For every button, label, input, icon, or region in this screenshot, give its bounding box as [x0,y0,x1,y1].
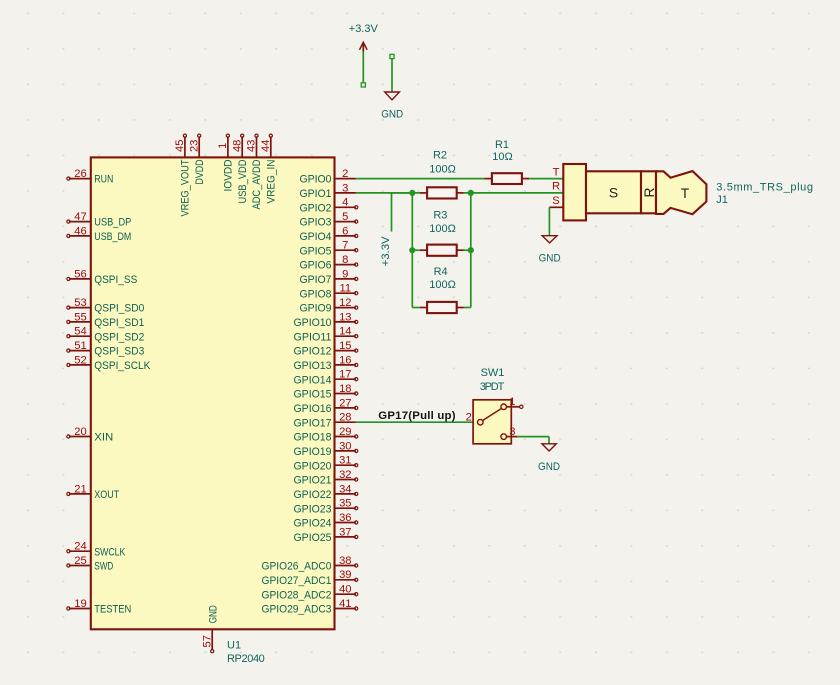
svg-text:GPIO28_ADC2: GPIO28_ADC2 [262,589,332,601]
J1 reference designator [716,194,728,206]
ground GND (top) [390,54,394,91]
pin 23 DVDD (top) [188,134,206,184]
svg-text:RP2040: RP2040 [227,653,265,665]
pin 39 GPIO27_ADC1 (right) [262,569,358,587]
pin 57 GND (bottom) [201,605,219,653]
svg-text:1: 1 [217,143,229,149]
svg-text:7: 7 [342,240,348,252]
svg-text:GND: GND [381,109,403,121]
svg-text:39: 39 [339,569,351,581]
svg-text:40: 40 [339,584,351,596]
pin T label of J1 [553,166,560,178]
svg-text:GPIO11: GPIO11 [294,331,332,343]
svg-text:5: 5 [342,211,348,223]
wire R3 left lead [412,249,420,251]
svg-text:57: 57 [201,635,213,647]
svg-text:16: 16 [339,354,351,366]
svg-text:USB_DP: USB_DP [94,217,131,229]
svg-text:29: 29 [339,426,351,438]
svg-text:S: S [609,185,618,200]
pin 3 GPIO1 (right) [300,182,356,200]
svg-text:GPIO25: GPIO25 [294,532,332,544]
pin 45 VREG_VOUT (top) [174,134,192,216]
pin 51 QSPI_SD3 (left) [67,340,145,358]
svg-text:55: 55 [74,311,86,323]
svg-text:R: R [642,187,657,197]
svg-text:GPIO1: GPIO1 [300,188,332,200]
svg-text:100Ω: 100Ω [429,223,456,235]
svg-text:GPIO6: GPIO6 [300,260,332,272]
svg-text:QSPI_SD0: QSPI_SD0 [94,303,144,315]
power +3.3V (rotated label) [380,236,392,267]
svg-text:28: 28 [339,412,351,424]
svg-text:GND: GND [538,461,560,473]
pin 12 GPIO9 (right) [300,297,358,315]
pin 32 GPIO21 (right) [294,469,358,487]
pin 20 XIN (left) [67,426,114,444]
svg-text:VREG_IN: VREG_IN [266,160,278,204]
svg-text:GPIO16: GPIO16 [294,403,332,415]
wire R1 to J1 tip [529,178,563,180]
svg-text:21: 21 [74,483,86,495]
SW1 throw contact pin 1 [501,396,523,410]
wire right chain vertical [470,193,472,308]
svg-text:SWD: SWD [94,561,113,573]
pin 11 GPIO8 (right) [300,283,358,301]
svg-text:J1: J1 [716,194,728,206]
svg-text:24: 24 [74,541,86,553]
R2 value 100R [429,164,456,176]
pin 5 GPIO3 (right) [300,211,358,229]
svg-text:34: 34 [339,483,351,495]
svg-text:GPIO7: GPIO7 [300,274,332,286]
svg-text:32: 32 [339,469,351,481]
svg-text:48: 48 [231,140,243,152]
pin 15 GPIO12 (right) [294,340,358,358]
pin 18 GPIO15 (right) [294,383,358,401]
svg-text:44: 44 [260,140,272,152]
svg-text:GPIO10: GPIO10 [294,317,332,329]
svg-text:XIN: XIN [94,432,113,444]
wire left chain vertical [411,193,413,308]
svg-text:R1: R1 [495,139,509,151]
svg-text:XOUT: XOUT [94,489,119,501]
svg-text:GPIO13: GPIO13 [294,360,332,372]
R4 reference label [434,266,448,278]
svg-text:46: 46 [74,225,86,237]
pin 26 RUN (left) [67,168,114,186]
pin 56 QSPI_SS (left) [67,268,138,286]
svg-text:8: 8 [342,254,348,266]
svg-text:36: 36 [339,512,351,524]
svg-text:3PDT: 3PDT [480,381,505,393]
connector J1 ring R section [641,171,657,213]
svg-text:53: 53 [74,297,86,309]
wire R4 right lead [464,307,471,309]
svg-text:27: 27 [339,397,351,409]
svg-text:2: 2 [342,168,348,180]
pin 44 VREG_IN (top) [260,134,278,203]
U1 reference designator [227,640,241,652]
svg-text:GPIO2: GPIO2 [300,202,332,214]
pin 28 GPIO17 (right) [294,412,356,430]
pin 37 GPIO25 (right) [294,526,358,544]
wire R3 right lead [464,249,471,251]
svg-text:35: 35 [339,498,351,510]
pin 21 XOUT (left) [67,483,120,501]
svg-text:GPIO19: GPIO19 [294,446,332,458]
resistor R3 [420,245,464,256]
connector J1 tip polygon [656,171,706,214]
svg-text:11: 11 [339,283,351,295]
svg-text:S: S [552,195,559,207]
svg-text:DVDD: DVDD [194,160,206,185]
pin R label of J1 [552,181,560,193]
wire GPIO1 to junction A [356,192,420,194]
U1 value RP2040 [227,653,265,665]
svg-text:3: 3 [509,426,515,438]
svg-text:10Ω: 10Ω [492,151,512,163]
pin 31 GPIO20 (right) [294,455,358,473]
svg-text:SWCLK: SWCLK [94,546,125,558]
svg-text:31: 31 [339,455,351,467]
svg-text:GPIO8: GPIO8 [300,288,332,300]
svg-text:37: 37 [339,526,351,538]
svg-text:19: 19 [74,598,86,610]
R3 reference label [433,210,447,222]
pin 16 GPIO13 (right) [294,354,358,372]
ground symbol near SW1 [538,444,560,473]
svg-text:51: 51 [74,340,86,352]
pin 17 GPIO14 (right) [294,369,358,387]
svg-text:GPIO14: GPIO14 [294,374,332,386]
SW1 reference designator [481,367,505,379]
svg-text:3.5mm_TRS_plug: 3.5mm_TRS_plug [716,181,813,193]
R3 value 100R [429,223,456,235]
svg-text:41: 41 [339,598,351,610]
pin 54 QSPI_SD2 (left) [67,326,145,344]
svg-text:IOVDD: IOVDD [223,160,235,192]
pin 1 IOVDD (top) [217,134,235,191]
svg-text:GPIO12: GPIO12 [294,346,332,358]
SW1 throw contact pin 3 [501,426,517,440]
svg-text:GPIO24: GPIO24 [294,518,332,530]
svg-text:T: T [681,186,690,201]
pin 55 QSPI_SD1 (left) [67,311,145,329]
power +3.3V (top) [349,23,379,52]
pin 46 USB_DM (left) [67,225,132,243]
svg-text:9: 9 [342,268,348,280]
resistor R2 [420,187,464,198]
svg-text:45: 45 [174,140,186,152]
svg-text:52: 52 [74,354,86,366]
svg-text:+3.3V: +3.3V [380,236,392,267]
connector J1 body S section [586,171,641,213]
pin 9 GPIO7 (right) [300,268,358,286]
svg-text:GPIO3: GPIO3 [300,217,332,229]
junction A (GPIO1/+3.3V/R2 left) [409,190,415,196]
svg-text:GPIO18: GPIO18 [294,432,332,444]
svg-text:+3.3V: +3.3V [349,23,379,35]
svg-text:USB_DM: USB_DM [94,231,131,243]
junction C (R3 left) [409,247,415,253]
pin 6 GPIO4 (right) [300,225,358,243]
svg-text:R: R [552,181,560,193]
R1 reference label [495,139,509,151]
svg-text:14: 14 [339,326,351,338]
svg-text:VREG_VOUT: VREG_VOUT [180,159,192,216]
wire SW1 pin 3 to ground [517,437,549,444]
ground symbol near J1 [539,236,561,265]
pin 48 USB_VDD (top) [231,134,249,203]
pin 43 ADC_AVDD (top) [246,134,264,209]
svg-text:GPIO9: GPIO9 [300,303,332,315]
pin 24 SWCLK (left) [67,541,126,559]
svg-text:GP17(Pull up): GP17(Pull up) [378,410,455,422]
svg-text:GND: GND [207,605,219,623]
svg-text:QSPI_SD3: QSPI_SD3 [94,346,144,358]
svg-text:GPIO4: GPIO4 [300,231,332,243]
svg-text:43: 43 [246,140,258,152]
svg-text:6: 6 [342,225,348,237]
svg-text:20: 20 [74,426,86,438]
pin 4 GPIO2 (right) [300,197,358,215]
svg-text:15: 15 [339,340,351,352]
pin 2 GPIO0 (right) [300,168,356,186]
resistor R4 [420,302,464,313]
pin 25 SWD (left) [67,555,114,573]
svg-text:TESTEN: TESTEN [94,604,131,616]
svg-text:17: 17 [339,369,351,381]
pin 13 GPIO10 (right) [294,311,358,329]
R2 reference label [433,150,447,162]
pin 41 GPIO29_ADC3 (right) [262,598,358,616]
svg-text:25: 25 [74,555,86,567]
pin 52 QSPI_SCLK (left) [67,354,151,372]
svg-text:23: 23 [188,140,200,152]
svg-text:QSPI_SD1: QSPI_SD1 [94,317,144,329]
pin S label of J1 [549,195,563,207]
svg-text:56: 56 [74,268,86,280]
svg-text:GPIO21: GPIO21 [294,475,332,487]
pin 14 GPIO11 (right) [294,326,358,344]
svg-text:GPIO20: GPIO20 [294,460,332,472]
IC U1 RP2040 body rectangle [91,157,335,629]
svg-text:GPIO26_ADC0: GPIO26_ADC0 [262,561,332,573]
pin 29 GPIO18 (right) [294,426,358,444]
svg-text:USB_VDD: USB_VDD [237,160,249,204]
SW1 lever [483,409,501,421]
svg-text:QSPI_SD2: QSPI_SD2 [94,331,144,343]
pin 7 GPIO5 (right) [300,240,358,258]
svg-text:GPIO23: GPIO23 [294,503,332,515]
pin 36 GPIO24 (right) [294,512,358,530]
connector J1 sleeve barrel [563,164,586,220]
svg-text:GPIO27_ADC1: GPIO27_ADC1 [262,575,332,587]
svg-text:4: 4 [342,197,348,209]
wire GPIO0 to R1 [356,178,485,180]
svg-text:R3: R3 [433,210,447,222]
svg-text:GPIO17: GPIO17 [294,417,332,429]
pin 38 GPIO26_ADC0 (right) [262,555,358,573]
net label GP17(Pull up) [378,410,455,422]
svg-text:GND: GND [539,252,561,264]
wire J1 sleeve to ground [548,207,550,235]
svg-text:RUN: RUN [94,174,113,186]
svg-text:47: 47 [74,211,86,223]
pin 30 GPIO19 (right) [294,440,358,458]
J1 value 3.5mm_TRS_plug [716,181,813,193]
junction D (R3 right) [468,247,474,253]
svg-text:12: 12 [339,297,351,309]
pin 35 GPIO23 (right) [294,498,358,516]
svg-text:3: 3 [342,182,348,194]
svg-text:SW1: SW1 [481,367,505,379]
svg-text:GPIO22: GPIO22 [294,489,332,501]
pin 19 TESTEN (left) [67,598,132,616]
svg-text:30: 30 [339,440,351,452]
SW1 pole contact pin 2 [466,411,483,425]
wire R4 left lead [412,307,420,309]
pin 27 GPIO16 (right) [294,397,358,415]
svg-text:38: 38 [339,555,351,567]
svg-text:R4: R4 [434,266,448,278]
svg-text:100Ω: 100Ω [429,164,456,176]
svg-text:GPIO5: GPIO5 [300,245,332,257]
svg-text:1: 1 [509,396,515,408]
svg-text:18: 18 [339,383,351,395]
junction B (R2 right) [468,190,474,196]
wire junction A to +3.3V tap [392,193,413,232]
svg-text:GPIO29_ADC3: GPIO29_ADC3 [262,604,332,616]
svg-text:R2: R2 [433,150,447,162]
wire R2 to J1 ring [464,192,563,194]
resistor R1 [485,173,530,184]
pin 34 GPIO22 (right) [294,483,358,501]
wire +3.3V stub [361,52,365,88]
switch SW1 body [473,400,511,444]
pin 53 QSPI_SD0 (left) [67,297,145,315]
ground symbol triangle (top) [381,92,403,121]
svg-text:U1: U1 [227,640,241,652]
svg-text:26: 26 [74,168,86,180]
svg-text:QSPI_SS: QSPI_SS [94,274,137,286]
svg-text:GPIO0: GPIO0 [300,174,332,186]
svg-text:QSPI_SCLK: QSPI_SCLK [94,360,150,372]
svg-text:GPIO15: GPIO15 [294,389,332,401]
pin 47 USB_DP (left) [67,211,132,229]
pin 8 GPIO6 (right) [300,254,358,272]
svg-text:2: 2 [466,411,472,423]
svg-text:ADC_AVDD: ADC_AVDD [251,160,263,210]
svg-text:T: T [553,166,560,178]
svg-text:13: 13 [339,311,351,323]
svg-text:54: 54 [74,326,86,338]
svg-text:100Ω: 100Ω [429,279,456,291]
SW1 value 3PDT [480,381,505,393]
pin 40 GPIO28_ADC2 (right) [262,584,358,602]
R4 value 100R [429,279,456,291]
wire GPIO17 to SW1 [356,421,477,423]
R1 value 10R [492,151,512,163]
